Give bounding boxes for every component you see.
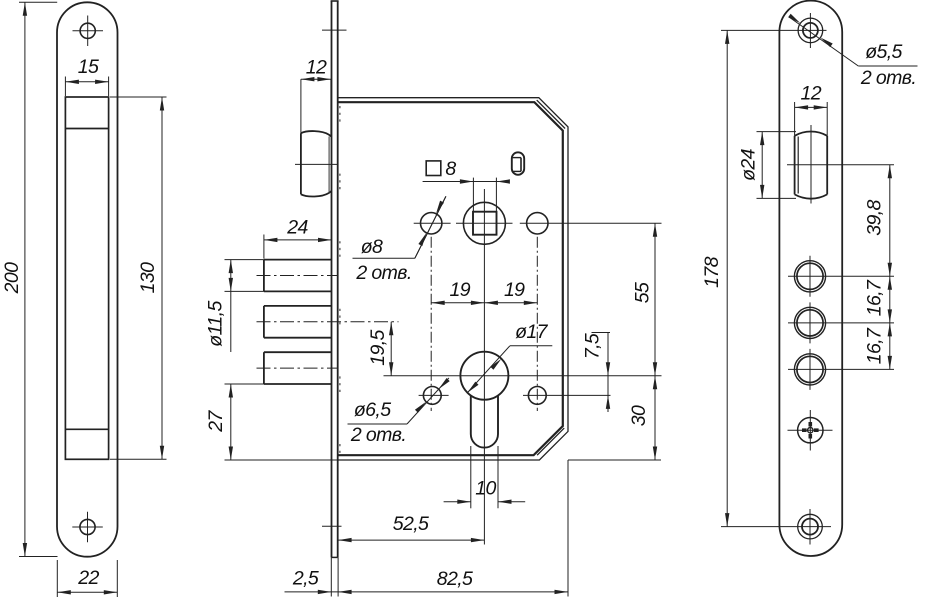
svg-text:8: 8	[445, 158, 456, 180]
svg-text:16,7: 16,7	[864, 279, 886, 316]
svg-text:55: 55	[632, 282, 654, 303]
svg-text:30: 30	[628, 405, 650, 426]
svg-text:ø8: ø8	[361, 236, 383, 258]
svg-text:ø17: ø17	[515, 321, 549, 343]
svg-text:130: 130	[137, 262, 159, 293]
svg-text:7,5: 7,5	[582, 333, 604, 359]
svg-text:2 отв.: 2 отв.	[355, 262, 411, 284]
svg-text:12: 12	[306, 56, 327, 78]
svg-text:22: 22	[77, 567, 99, 589]
svg-text:12: 12	[801, 83, 822, 105]
svg-text:2 отв.: 2 отв.	[350, 424, 406, 446]
svg-text:27: 27	[205, 410, 227, 433]
svg-text:15: 15	[78, 56, 99, 78]
svg-text:82,5: 82,5	[437, 568, 473, 590]
svg-text:19: 19	[504, 279, 525, 301]
svg-text:ø5,5: ø5,5	[865, 41, 902, 63]
svg-text:52,5: 52,5	[393, 513, 429, 535]
svg-text:19,5: 19,5	[367, 329, 389, 365]
svg-text:ø6,5: ø6,5	[354, 399, 391, 421]
svg-text:ø11,5: ø11,5	[205, 301, 227, 347]
svg-text:16,7: 16,7	[864, 327, 886, 364]
svg-text:39,8: 39,8	[864, 199, 886, 235]
svg-text:24: 24	[286, 217, 308, 239]
svg-text:ø24: ø24	[738, 148, 760, 181]
svg-text:10: 10	[475, 478, 496, 500]
svg-text:2,5: 2,5	[292, 568, 319, 590]
svg-text:19: 19	[450, 279, 471, 301]
svg-text:178: 178	[701, 256, 723, 287]
svg-text:200: 200	[1, 262, 23, 294]
svg-text:2 отв.: 2 отв.	[860, 67, 916, 89]
